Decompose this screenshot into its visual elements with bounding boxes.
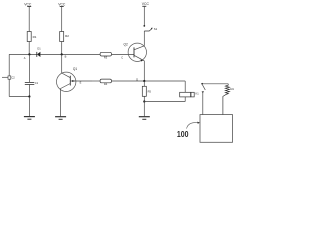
load M1 (zigzag) [223,84,235,115]
resistor R1 [27,32,37,42]
wire R4 to node D [112,80,186,82]
wire Q1 emitter-leg to ground [60,88,62,116]
svg-text:K1: K1 [196,92,200,96]
node D [143,80,145,82]
diode D1 [37,46,41,57]
svg-text:R1: R1 [33,35,37,39]
wire node D to relay coil (top) [184,81,186,92]
svg-text:Q2: Q2 [124,43,128,47]
svg-text:R4: R4 [104,82,108,86]
svg-text:R2: R2 [65,34,69,38]
resistor R5 [142,81,151,102]
svg-text:VCC: VCC [142,2,150,6]
relay contact [201,83,205,115]
box 100 [200,115,233,143]
wire Q2 emitter to node D [143,61,145,81]
resistor R3 [100,52,111,59]
svg-text:D1: D1 [37,46,41,50]
svg-text:C1: C1 [35,81,39,85]
wire R3 to Q2 base [112,53,135,55]
node junction below R5 [143,100,145,102]
resistor R4 [100,79,111,86]
svg-text:D: D [136,77,138,81]
svg-text:R3: R3 [104,56,108,60]
node junction left [28,95,30,97]
wire contact rail [202,83,228,85]
node A [28,53,30,55]
transistor Q2 [124,43,147,62]
svg-text:M1: M1 [230,88,234,91]
svg-text:A: A [24,56,26,60]
svg-text:100: 100 [177,129,189,139]
wire junction to ground [143,102,145,117]
svg-text:Q1: Q1 [73,67,77,71]
power VCC3 [142,6,146,25]
ground (left) [24,117,35,120]
svg-text:R5: R5 [148,90,152,94]
wire rail Q1-R4-D [92,80,100,82]
wire coil bottom to bottom rail [184,97,186,102]
wire bottom-left rail [9,96,29,98]
wire rail A-B (left end at x=9.2) [9,53,36,55]
svg-text:E: E [80,81,82,85]
node B [61,53,63,55]
svg-text:S1: S1 [154,27,158,31]
svg-text:VCC: VCC [58,2,66,6]
transistor Q1 [56,67,92,91]
capacitor C1 [25,54,39,96]
wire node B down to Q1 [61,54,63,73]
ground (R5) [139,117,150,120]
power VCC2 [60,7,64,32]
wire R2 to node B [61,42,63,55]
svg-text:C: C [121,56,123,60]
svg-text:VCC: VCC [24,2,32,6]
power VCC1 [27,7,31,32]
resistor R2 [60,32,70,42]
wire S1 to Q2 collector [143,31,145,46]
svg-text:B: B [65,55,67,59]
label 100 with leader [177,122,200,139]
wire D1 to node B to R3 [40,53,100,55]
relay coil K1 [180,92,200,97]
ground (Q1) [55,117,66,120]
wire junction to ground [28,97,30,117]
svg-text:C2: C2 [11,76,15,80]
switch S1 [143,25,157,31]
capacitor C2 (left branch, box style with stub) [2,54,15,96]
wire R1 to node A [28,42,30,55]
wire bottom rail [144,101,185,103]
